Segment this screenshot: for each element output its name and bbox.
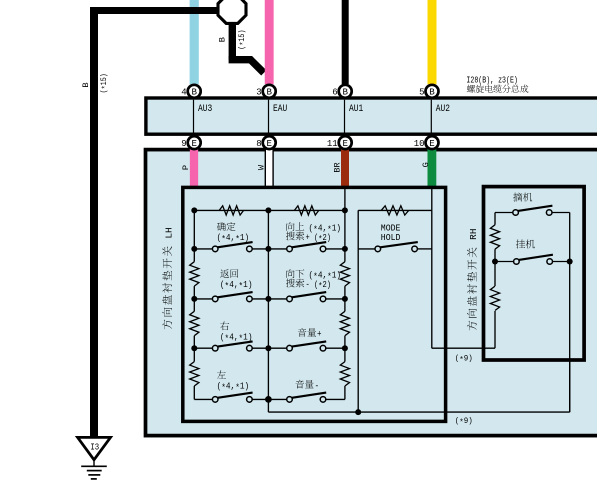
svg-text:I28(B), z3(E): I28(B), z3(E) <box>466 74 518 85</box>
svg-text:I3: I3 <box>90 442 99 452</box>
svg-text:B: B <box>191 87 197 98</box>
svg-text:E: E <box>266 138 271 149</box>
svg-text:B: B <box>266 87 272 98</box>
svg-text:E: E <box>191 138 196 149</box>
svg-text:E: E <box>429 138 434 149</box>
svg-text:9: 9 <box>181 139 186 149</box>
svg-text:5: 5 <box>419 88 424 98</box>
svg-text:8: 8 <box>256 139 261 149</box>
svg-text:+ (*2): + (*2) <box>306 233 332 245</box>
svg-text:EAU: EAU <box>273 103 287 114</box>
svg-text:(*15): (*15) <box>99 73 111 93</box>
svg-text:B: B <box>81 82 91 87</box>
svg-text:BR: BR <box>333 162 343 172</box>
svg-text:(*15): (*15) <box>237 29 249 49</box>
svg-text:(*9): (*9) <box>455 416 473 428</box>
svg-text:(*9): (*9) <box>455 353 473 365</box>
svg-text:4: 4 <box>181 88 186 98</box>
svg-text:P: P <box>181 165 191 170</box>
svg-text:10: 10 <box>414 139 425 149</box>
svg-text:3: 3 <box>256 88 261 98</box>
svg-text:RH: RH <box>468 229 479 246</box>
svg-text:11: 11 <box>327 139 338 149</box>
svg-text:LH: LH <box>163 227 174 244</box>
svg-text:E: E <box>342 138 347 149</box>
svg-text:- (*2): - (*2) <box>306 280 332 292</box>
svg-text:(*4,*1): (*4,*1) <box>220 332 253 344</box>
svg-text:G: G <box>421 162 431 167</box>
svg-text:AU3: AU3 <box>198 103 212 114</box>
svg-text:-: - <box>315 381 320 391</box>
svg-text:AU1: AU1 <box>349 103 363 114</box>
svg-text:(*4,*1): (*4,*1) <box>217 381 250 393</box>
svg-text:(*4,*1): (*4,*1) <box>217 233 250 245</box>
svg-text:B: B <box>218 37 228 42</box>
svg-text:HOLD: HOLD <box>381 233 401 243</box>
svg-text:AU2: AU2 <box>436 103 450 114</box>
svg-text:B: B <box>429 87 435 98</box>
svg-text:B: B <box>342 87 348 98</box>
svg-text:6: 6 <box>332 88 337 98</box>
svg-text:+: + <box>317 330 322 340</box>
svg-text:(*4,*1): (*4,*1) <box>220 280 253 292</box>
